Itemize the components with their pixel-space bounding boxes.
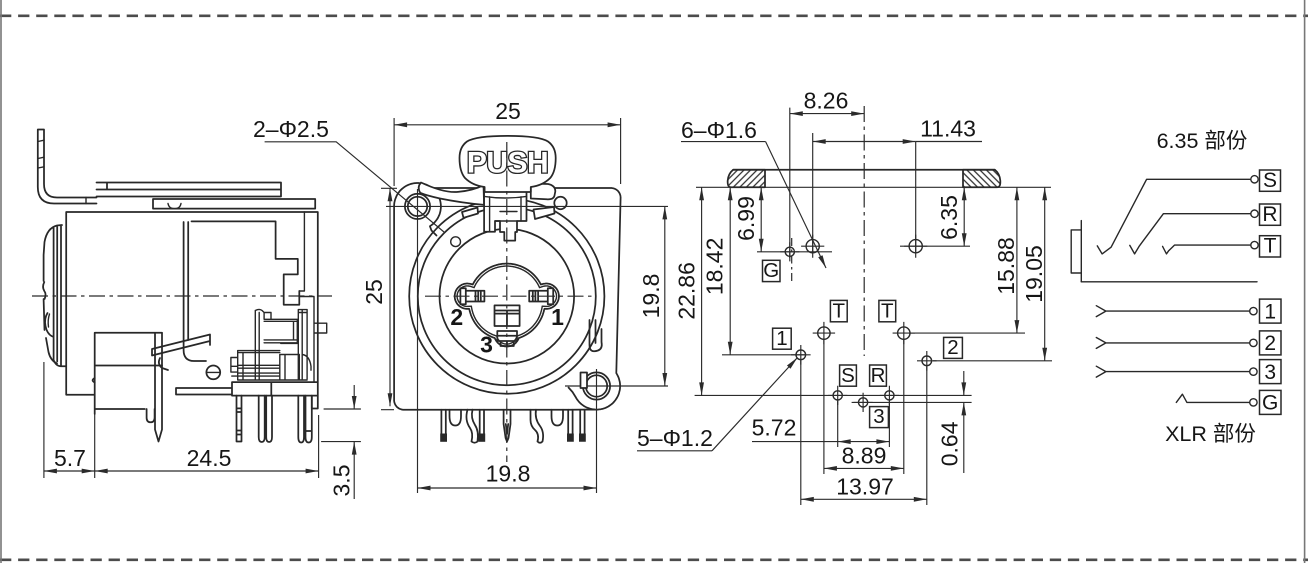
svg-text:1: 1 [551,304,564,330]
svg-text:3: 3 [480,332,493,358]
front view: latch side hook left [462,208,478,218]
svg-text:3.5: 3.5 [329,465,355,497]
side view: nose latch hook dark curl [45,313,52,337]
svg-text:T: T [881,299,894,322]
dim 6.99 line [760,187,762,252]
side view: panel spring L-bracket [38,130,97,204]
front view: latch bail band left [419,183,484,205]
page border right line [1304,0,1306,563]
svg-text:3: 3 [873,405,884,428]
pcb: boxed label S [840,365,857,386]
pcb: boxed label T left [830,300,847,321]
side view: wire legs 4,5 [298,396,312,443]
schematic: sleeve line [1081,281,1257,283]
front view: construction line through bottom-right hole (horizontal) [565,385,668,387]
front view: insert cloud outline (inner) [457,266,556,344]
dim 13.97 line [801,498,927,500]
dim 5.72 line [838,441,890,443]
svg-text:24.5: 24.5 [187,445,232,471]
schematic: R wire [1130,214,1251,254]
front view: insert cloud outline (outer) [455,264,559,347]
page border bottom dashed line [0,558,1308,561]
side view: latch wedge detail [152,335,210,371]
front view: bottom-right hole key notch [581,373,588,389]
svg-text:5.72: 5.72 [752,415,797,441]
dim 19.8 bottom line [418,487,597,489]
front view: bent legs left [466,410,484,443]
front view: ground tab lower-right [590,320,602,351]
side view: horizontal centerline [32,295,332,297]
side view: top mounting plate (upper) [97,183,282,197]
page border top dashed line [0,15,1308,18]
svg-text:25: 25 [495,98,521,124]
pcb: boxed label 1 [773,328,792,349]
svg-text:3: 3 [1264,361,1276,384]
dim 18.42 line [729,187,731,354]
svg-text:2–Φ2.5: 2–Φ2.5 [253,116,329,142]
front view: latch side hook right [534,207,555,219]
front view: bottom-right ear inner arc [569,388,595,410]
dim 8.89 line [824,467,904,469]
pcb: hole 3 [859,398,868,407]
schematic: boxed terminal 2 [1260,331,1282,355]
side view: top mounting plate (lower, wide) [153,199,315,209]
pcb: hole top-left PHI1.6 [806,240,819,253]
svg-text:19.8: 19.8 [486,461,531,487]
pcb: hole top-right PHI1.6 [909,240,922,253]
svg-text:6.99: 6.99 [733,196,759,241]
svg-text:1: 1 [776,327,787,350]
svg-text:11.43: 11.43 [920,116,976,142]
front view: small index circle upper-left [451,237,461,247]
svg-text:S: S [1263,169,1277,192]
front view: flange plate outline with corner ears [394,183,620,410]
pcb: vertical centerline [863,106,865,356]
label 6-PHI1.6 leader [681,141,766,143]
side view: pointed solder leg [155,333,162,442]
pcb: short centerline through G hole [791,238,793,284]
front view: latch stem [484,185,526,241]
schematic: XLR contact 2 wire [1096,338,1249,349]
label 5-PHI1.2 leader [637,450,712,452]
front view: recess circle [440,229,575,364]
svg-text:PUSH: PUSH [467,147,548,180]
front view: bell rim circle [418,207,596,385]
dim 25 top extension lines [394,118,620,186]
schematic: boxed terminal 1 [1260,299,1282,323]
side view: leg stub with rounded bottom [147,409,155,422]
svg-text:25: 25 [361,279,387,305]
front view: outer bell circle [409,199,604,394]
schematic: boxed terminal 3 [1260,360,1282,384]
svg-text:5–Φ1.2: 5–Φ1.2 [637,425,713,451]
dim 19.8 right line [664,206,666,386]
svg-text:19.8: 19.8 [638,274,664,319]
front view: latch knob right [554,197,566,209]
svg-text:8.89: 8.89 [842,443,887,469]
svg-text:6–Φ1.6: 6–Φ1.6 [681,117,757,143]
dim 3.5 arrows [353,385,355,409]
side view: wire leg 1 [237,396,242,442]
front view: key slot ladder [495,305,520,326]
pcb: hole S [833,391,842,400]
dim 5.7 line [44,470,95,472]
svg-text:2: 2 [947,336,958,359]
schematic: boxed terminal T [1260,236,1281,257]
pcb: panel bar top edge [733,169,995,171]
svg-text:8.26: 8.26 [804,88,849,114]
schematic: boxed terminal S [1260,170,1281,191]
schematic: S wire [1097,179,1251,254]
front view: construction line through top-left hole (horizontal) [386,205,668,207]
svg-text:6.35: 6.35 [936,195,962,240]
dim 0.64 arrows [963,371,965,395]
svg-text:R: R [1262,203,1277,226]
pcb: boxed label R [870,365,887,386]
pcb: hatched panel block left [728,170,765,188]
pcb: hatched panel block right [963,170,1000,188]
dim 3.5 reference lines [321,409,361,442]
schematic: T wire [1163,245,1251,254]
side view: terminal stack detail [231,212,327,382]
front view: bottom-right mounting hole [583,372,610,399]
side view: nose latch hook small [43,282,45,299]
schematic: jack body bracket [1071,221,1081,282]
pcb: hole 1 [796,350,806,360]
svg-text:S: S [841,364,855,387]
front view: PUSH tab head [460,136,556,192]
svg-text:R: R [871,364,886,387]
dim 15.88 line [1016,187,1018,333]
dim 25 top line [394,124,620,126]
svg-text:1: 1 [1264,300,1276,323]
side view: housing inner cavity line [184,221,300,361]
svg-text:15.88: 15.88 [993,237,1019,295]
pcb: boxed label T right [879,300,896,321]
front view: latch lever right [531,184,556,200]
svg-text:T: T [1264,235,1277,258]
svg-text:2: 2 [450,304,463,330]
dim 25 left line [389,188,391,406]
front view: solder legs below flange [441,410,461,434]
schematic: XLR contact 3 wire [1096,366,1249,377]
front view: top-left mounting hole [405,194,430,219]
front view: top-left ear inner arc [430,188,441,236]
svg-text:6.35 部份: 6.35 部份 [1157,129,1248,153]
front view: bent legs right [531,410,564,443]
schematic: ground wire [1176,394,1249,402]
front view: vertical centerline [506,142,508,462]
svg-text:2: 2 [1264,332,1276,355]
dim 6.35 line [963,187,965,246]
schematic: boxed terminal R [1260,204,1281,225]
schematic: boxed terminal G [1260,390,1282,414]
front view: pin 1 contact [529,288,553,304]
svg-text:13.97: 13.97 [836,474,894,500]
side view: terminal screw [206,366,220,380]
dim 24.5 line [95,470,319,472]
front view: center pointed pin [504,410,511,442]
dim 11.43 line [813,141,916,143]
schematic: XLR contact 1 wire [1096,306,1249,317]
svg-text:0.64: 0.64 [937,421,963,466]
side view: front nose (mating face) [44,225,67,366]
svg-text:XLR 部份: XLR 部份 [1165,422,1256,446]
front view: construction line through bottom-right hole (vertical) [596,369,598,493]
dim 8.26 line [790,113,864,115]
side view: small bump on lower block edge [93,378,95,383]
pcb: boxed label 3 [870,407,889,428]
pcb: boxed label G [763,260,781,281]
pcb: hole 2 [922,356,932,366]
pcb: boxed label 2 [944,337,963,358]
front view: pin 3 contact [497,331,517,346]
pcb: hole T right [898,327,910,339]
label 2-PHI2.5 leader [265,142,444,232]
svg-text:18.42: 18.42 [702,238,728,296]
front view: horizontal centerline [425,295,592,297]
svg-text:G: G [1262,392,1278,415]
pcb: hole R [885,391,894,400]
svg-text:G: G [763,259,779,282]
svg-text:22.86: 22.86 [674,262,700,320]
svg-text:19.05: 19.05 [1021,245,1047,303]
dim 22.86 line [701,187,703,395]
side view: main housing outline [66,212,318,414]
dim 5.7 extension lines [44,362,319,478]
pcb: hole T left [818,327,830,339]
dim 19.05 line [1044,187,1046,360]
side view: wire legs 2,3 [259,396,272,442]
pcb: construction lines [695,108,1052,505]
front view: pin 2 contact [460,288,484,304]
side view: dimple under plate [168,204,181,209]
pcb: hole G pad [785,247,794,256]
front view: construction line through top-left hole (vertical) [417,189,419,493]
svg-text:5.7: 5.7 [54,445,86,471]
svg-text:T: T [833,299,846,322]
pcb: panel surface line [696,186,1051,188]
page border left line [0,0,2,563]
